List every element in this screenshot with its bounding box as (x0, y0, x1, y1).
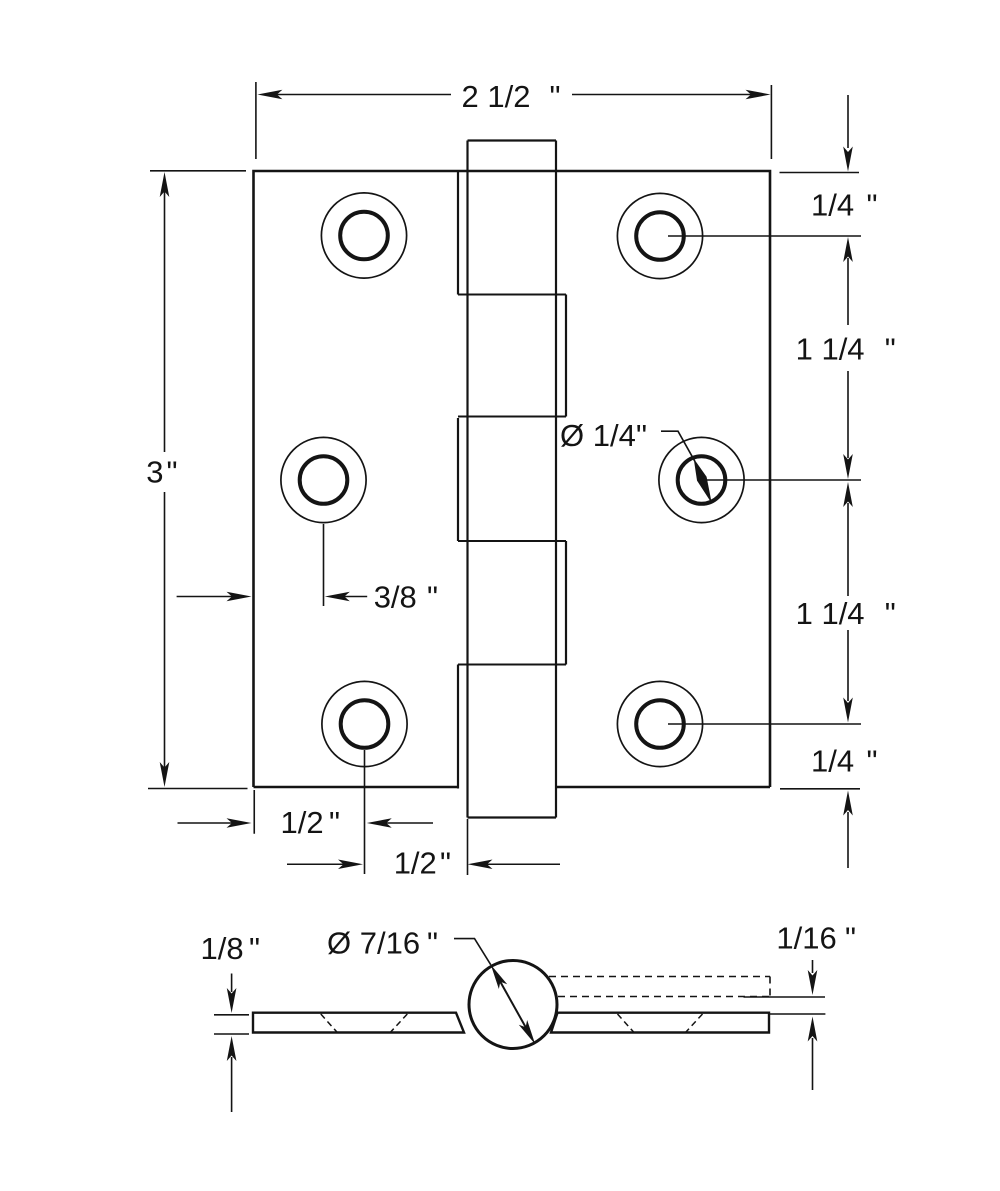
dim 3/8 hole stem (323, 524, 325, 606)
arrow right dim down at mid hole (843, 454, 853, 479)
svg-text:": " (885, 332, 896, 367)
side view right bar (551, 1013, 769, 1033)
right dim line seg6 (847, 812, 849, 868)
svg-text:": " (427, 926, 438, 961)
dim 2-1/2 line left (277, 94, 451, 96)
right top tick (780, 172, 860, 174)
hole top-left inner (340, 212, 388, 260)
right dim line seg2 (847, 258, 849, 325)
hole bottom-right inner (636, 700, 684, 748)
arrow right dim down at top edge (843, 147, 853, 172)
svg-text:1/16: 1/16 (776, 921, 836, 956)
dim 2-1/2 line right (572, 94, 751, 96)
svg-text:3: 3 (146, 455, 163, 490)
left edge extension below leaf (253, 790, 255, 834)
hole mid-left inner (300, 456, 348, 504)
side view barrel circle (469, 961, 557, 1049)
dim 1/2 first right arrow tail (386, 822, 433, 824)
arrow 1/8 down (227, 988, 237, 1013)
dim 3in bottom tick (148, 788, 248, 790)
arrow 3in top (160, 172, 170, 197)
hole top-right inner (636, 212, 684, 260)
svg-text:1 1/4: 1 1/4 (796, 596, 865, 631)
right knuckle sleeve 1 (565, 295, 567, 417)
arrow 2-1/2 right (746, 90, 771, 100)
bottom-left hole stem (364, 750, 366, 874)
svg-text:": " (845, 921, 856, 956)
svg-text:": " (427, 580, 438, 615)
knuckle boundary line 2 (458, 416, 566, 418)
dim 1/8 bottom tick (214, 1033, 249, 1035)
svg-text:": " (885, 596, 896, 631)
svg-text:1/4: 1/4 (811, 744, 854, 779)
dim 2-1/2 left extension line (255, 82, 257, 159)
dim 3in line upper (164, 190, 166, 452)
arrow 3/8 pointing right at leaf edge (227, 592, 252, 602)
svg-text:": " (550, 79, 561, 114)
left knuckle sleeve 3 (457, 665, 459, 789)
hole top-right outer (617, 193, 702, 278)
barrel bottom cap edge (468, 816, 557, 818)
dim 3/8 left arrow line (177, 596, 232, 598)
leaf bottom edge left part (254, 786, 459, 789)
arrow 3in bottom (160, 762, 170, 787)
svg-text:Ø 1/4: Ø 1/4 (560, 418, 636, 453)
dim 1/8 top tick (214, 1014, 249, 1016)
arrow 2-1/2 left (257, 90, 282, 100)
hole bottom-right outer (617, 681, 702, 766)
arrow 1/16 down (808, 970, 818, 995)
dim 1/8 lower arrow line (231, 1057, 233, 1112)
svg-text:1/2: 1/2 (281, 805, 324, 840)
arrow right dim up at bottom edge (843, 791, 853, 816)
hinge leaf outline (front view) (254, 171, 771, 787)
svg-text:": " (329, 805, 340, 840)
folded leaf dashed right edge (769, 977, 771, 997)
dim 1/16 top tick (744, 996, 826, 998)
right leader from bottom hole (668, 723, 861, 725)
folded leaf dashed top (549, 976, 770, 978)
svg-text:2 1/2: 2 1/2 (462, 79, 531, 114)
svg-text:": " (636, 418, 647, 453)
countersink dashes left bar (321, 1014, 703, 1033)
barrel diameter arrow line (494, 971, 532, 1039)
hole bottom-left inner (341, 700, 389, 748)
dim 3in top tick (150, 170, 246, 172)
knuckle boundary line 4 (458, 664, 566, 666)
right dim line seg4 (847, 503, 849, 596)
side view left bar (253, 1013, 464, 1033)
arrow 1/8 up (227, 1036, 237, 1061)
barrel inner right line (555, 141, 557, 818)
svg-text:": " (440, 846, 451, 881)
dim 1/16 lower arrow line (812, 1038, 814, 1090)
right dim line seg5 (847, 630, 849, 701)
svg-text:": " (249, 931, 260, 966)
arrow 1/2 first right (367, 818, 392, 828)
svg-text:3/8: 3/8 (374, 580, 417, 615)
arrowheads (160, 90, 853, 1061)
dia 1/4 leader shaft (695, 461, 711, 502)
dim 1/8 upper arrow line (231, 974, 233, 993)
arrow 1/2 second right (468, 859, 493, 869)
arrow barrel diameter upper (487, 962, 508, 988)
right leader from middle hole (706, 479, 861, 481)
right dim line seg3 (847, 371, 849, 458)
svg-text:": " (867, 188, 878, 223)
hole mid-left outer (281, 437, 366, 522)
hole top-left outer (321, 193, 406, 278)
right bottom tick (780, 788, 860, 790)
barrel top cap edge (468, 139, 557, 141)
arrow right dim up at mid hole (843, 482, 853, 507)
hole mid-right inner (678, 456, 726, 504)
barrel edge extension below (467, 819, 469, 875)
svg-text:Ø 7/16: Ø 7/16 (327, 926, 420, 961)
arrow 3/8 pointing left at hole stem (325, 592, 350, 602)
arrow right dim up at top hole (843, 237, 853, 262)
leaf bottom edge right part (556, 786, 770, 789)
arrow 1/2 first left (227, 818, 252, 828)
svg-text:1/2: 1/2 (394, 846, 437, 881)
dim 1/2 second right arrow tail (487, 863, 560, 865)
right knuckle sleeve 2 (565, 541, 567, 665)
knuckle boundary line 3 (458, 540, 566, 542)
dim 3/8 right arrow tail (344, 596, 367, 598)
dim 2-1/2 right extension line (770, 85, 772, 159)
dim 3in line lower (164, 492, 166, 768)
right leader from top hole (668, 235, 861, 237)
svg-text:1 1/4: 1 1/4 (796, 332, 865, 367)
folded leaf dashed bottom (558, 996, 770, 998)
dia 1/4 leader (661, 431, 695, 461)
right dim line seg1 (847, 95, 849, 148)
arrow barrel diameter lower (519, 1020, 540, 1046)
arrow right dim down at bottom hole (843, 698, 853, 723)
svg-text:": " (867, 744, 878, 779)
dim 1/16 bottom tick (769, 1013, 825, 1015)
dim 1/16 upper arrow line (812, 960, 814, 973)
barrel inner left line (466, 141, 468, 818)
left knuckle sleeve 1 (457, 171, 459, 295)
knuckle boundary line 1 (458, 294, 566, 296)
dim 1/2 second left arrow line (287, 863, 344, 865)
hole bottom-left outer (322, 681, 407, 766)
dim 1/2 first left arrow line (178, 822, 233, 824)
arrow 1/16 up (808, 1017, 818, 1042)
svg-text:1/4: 1/4 (811, 188, 854, 223)
svg-text:": " (167, 455, 178, 490)
arrow 1/2 second left (338, 859, 363, 869)
left knuckle sleeve 2 (457, 418, 459, 541)
dia 7/16 leader (454, 939, 491, 965)
svg-text:1/8: 1/8 (201, 931, 244, 966)
hole mid-right outer (659, 437, 744, 522)
